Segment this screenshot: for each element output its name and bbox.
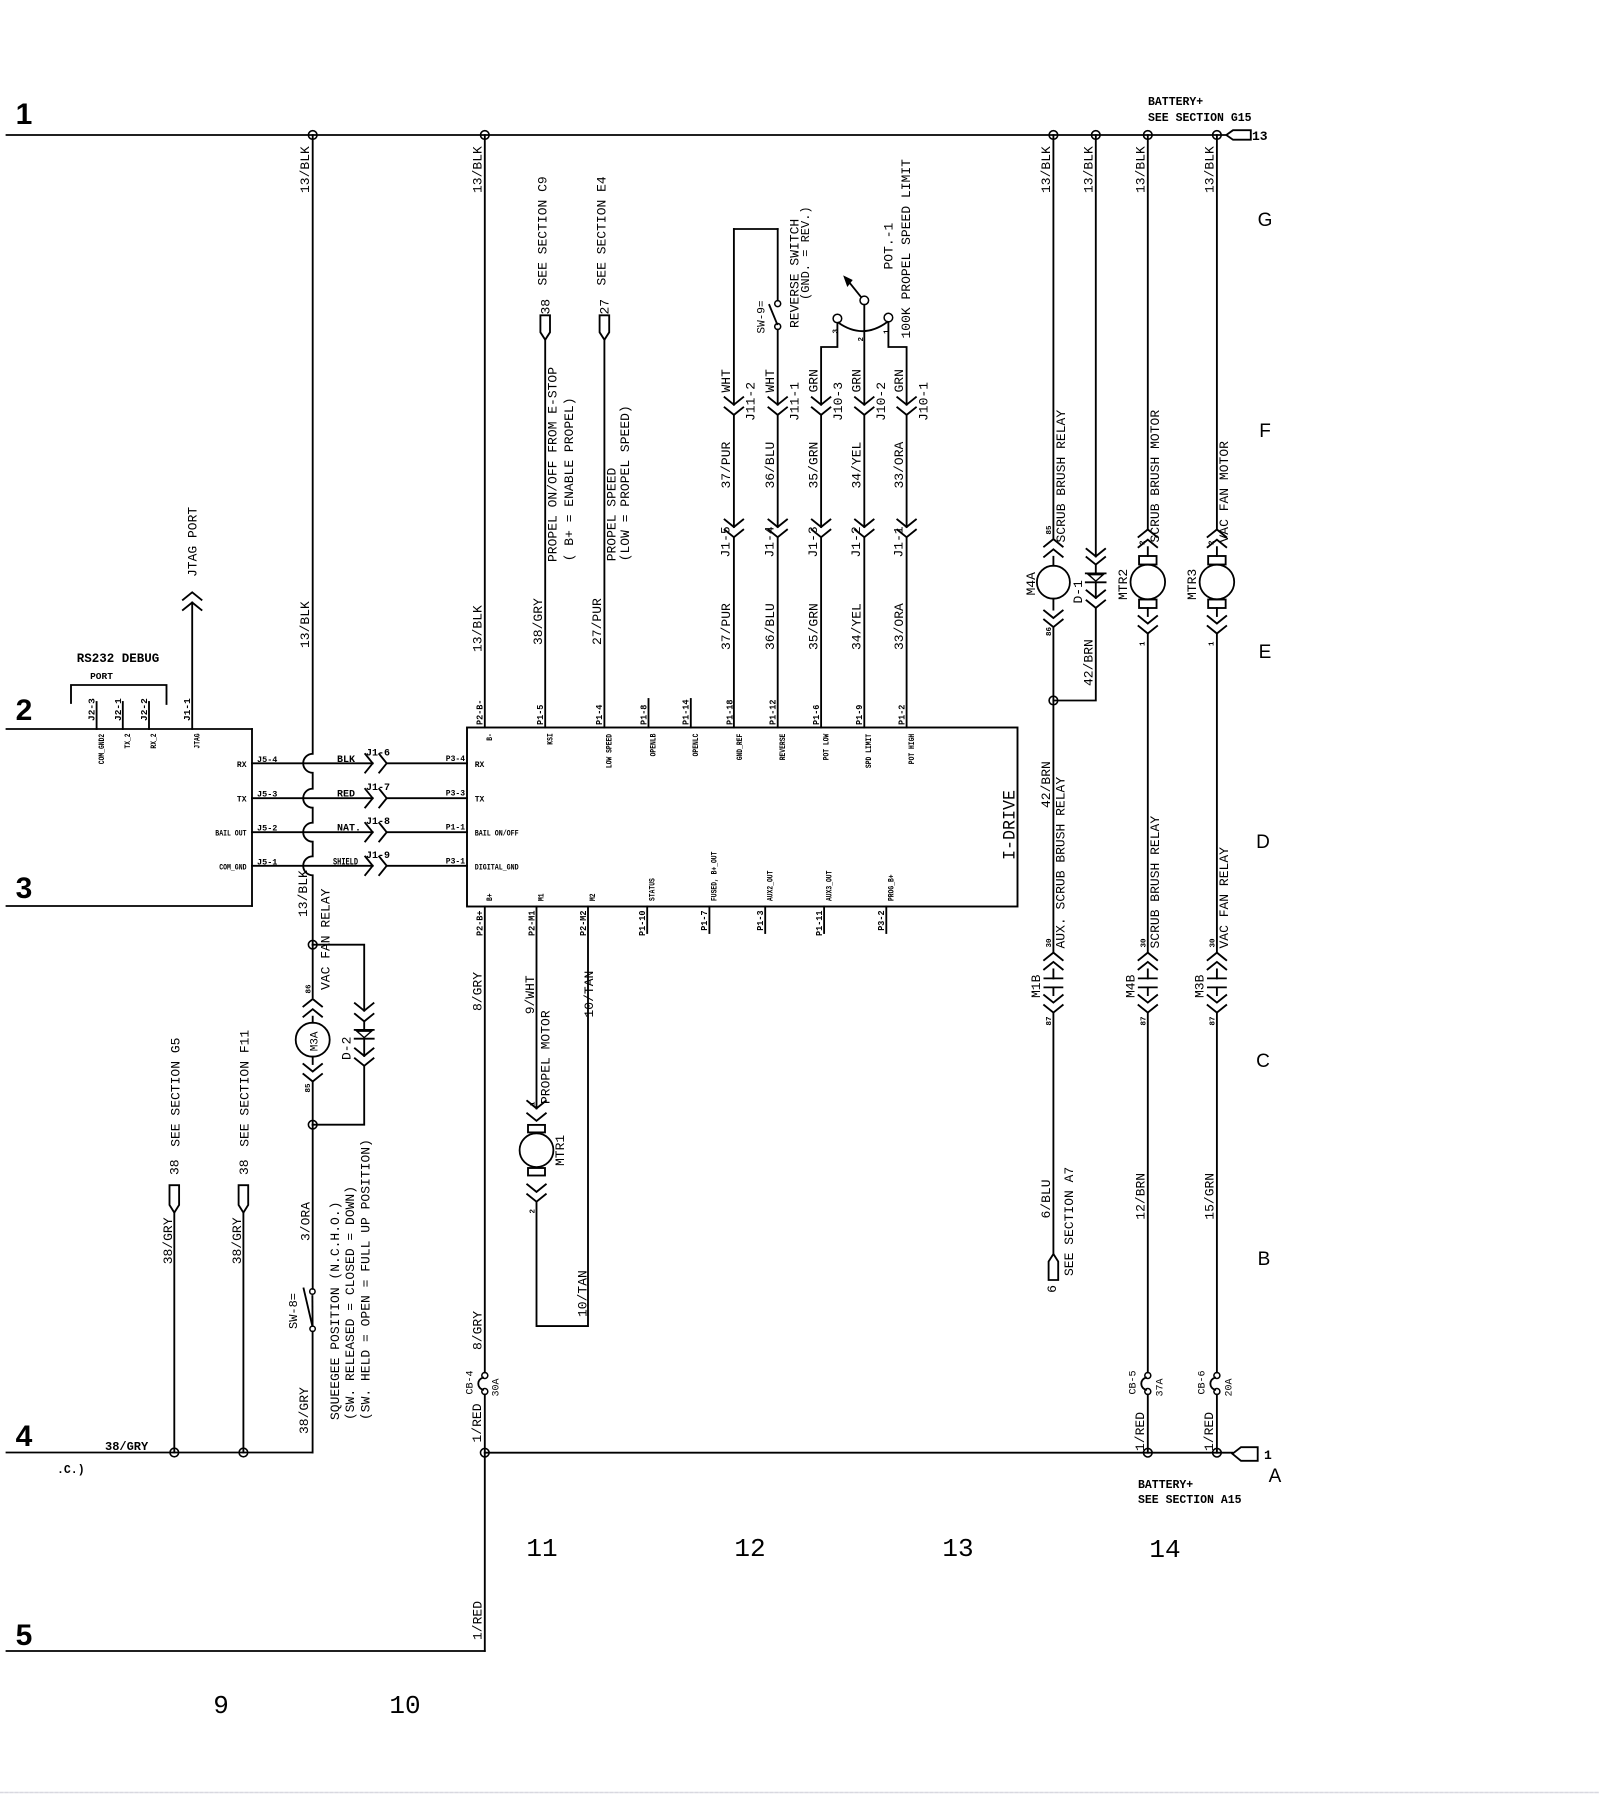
svg-text:J10-3: J10-3 (831, 382, 846, 421)
svg-text:M2: M2 (589, 893, 598, 901)
label PORT (90, 671, 113, 682)
svg-text:SEE SECTION G15: SEE SECTION G15 (1148, 112, 1252, 125)
wire 13/BLK (M4A branch) (1052, 135, 1054, 539)
column label 12 (734, 1534, 765, 1564)
label J1-2 (849, 526, 864, 557)
label PROPEL SPEED (605, 467, 620, 561)
motor MTR2 (1131, 547, 1166, 608)
svg-text:J11-1: J11-1 (788, 382, 803, 421)
svg-text:38/GRY: 38/GRY (105, 1440, 149, 1454)
label AUX. SCRUB BRUSH RELAY (1053, 777, 1068, 949)
column label 13 (942, 1534, 973, 1564)
label JTAG PORT (186, 507, 201, 577)
svg-text:P1-10: P1-10 (637, 910, 648, 936)
label SEE SECTION G5 (169, 1038, 184, 1147)
label B- (inside I-DRIVE top) (486, 733, 495, 741)
label 37/PUR (upper) (719, 441, 734, 488)
pin stub P1-10 (646, 907, 648, 934)
svg-text:J1-1: J1-1 (891, 526, 906, 557)
label M3A (inside coil) (309, 1031, 321, 1051)
svg-text:P1-6: P1-6 (811, 704, 822, 725)
pin J1-1 (JTAG) wire (191, 603, 193, 730)
svg-text:P2-B-: P2-B- (475, 700, 486, 726)
pin label P2-M2 (578, 910, 589, 936)
wire 3/ORA (junction to SW-8) (312, 1125, 314, 1289)
svg-text:AUX2_OUT: AUX2_OUT (766, 870, 775, 901)
label GRN (806, 369, 821, 392)
svg-text:OPENLC: OPENLC (692, 733, 701, 756)
junction M3A bottom / D-2 bottom (308, 1120, 317, 1129)
label J1-4 (763, 526, 778, 557)
pin stub P1-7 (708, 907, 710, 934)
svg-text:PROPEL ON/OFF FROM E-STOP: PROPEL ON/OFF FROM E-STOP (545, 367, 560, 562)
wire BLK from control board J5-4 to I-DRIVE P3-4 (252, 762, 467, 764)
svg-text:TX: TX (475, 796, 485, 805)
label 13/BLK (lower) (296, 870, 311, 917)
svg-text:CB-6: CB-6 (1198, 1370, 1209, 1394)
svg-text:POT HIGH: POT HIGH (908, 734, 917, 765)
svg-text:1: 1 (1264, 1448, 1272, 1463)
pin label J5-4 (257, 755, 277, 765)
svg-text:1/RED: 1/RED (470, 1403, 485, 1442)
pin 2 label (MTR1) (530, 1209, 538, 1214)
svg-text:42/BRN: 42/BRN (1081, 639, 1096, 686)
label 35/GRN (upper) (806, 442, 821, 489)
pin 2 label (MTR3) (1209, 540, 1217, 545)
label SEE SECTION F11 (238, 1030, 253, 1147)
svg-text:M1: M1 (538, 893, 547, 901)
svg-text:6/BLU: 6/BLU (1039, 1179, 1054, 1218)
svg-text:J2-1: J2-1 (113, 698, 124, 721)
switch SW-8 (squeegee position) (304, 1289, 316, 1332)
terminal 27 (see section E4) (600, 315, 610, 340)
label D-1 (1071, 580, 1086, 604)
svg-text:J1-6: J1-6 (366, 748, 390, 759)
svg-text:85: 85 (1046, 525, 1054, 535)
svg-text:P1-5: P1-5 (535, 704, 546, 725)
svg-text:1: 1 (530, 1101, 538, 1106)
svg-text:30A: 30A (492, 1378, 503, 1396)
label (LOW = PROPEL SPEED) (618, 405, 633, 561)
connector J10-2 chevrons (855, 397, 874, 415)
label BAIL ON/OFF (inside I-DRIVE) (475, 830, 519, 839)
pin label J5-3 (257, 790, 277, 800)
column label 11 (526, 1534, 557, 1564)
svg-text:CB-5: CB-5 (1129, 1370, 1140, 1394)
wire 38/GRY stub to SEE SECTION G5 (173, 1213, 175, 1453)
label 35/GRN (lower) (806, 603, 821, 650)
wire MTR1 bottom loop to 10/TAN (537, 907, 589, 1327)
svg-text:KSI: KSI (546, 733, 555, 745)
wire 13/BLK (D-1 branch) (1053, 135, 1095, 701)
svg-text:3: 3 (16, 872, 33, 905)
junction on BATTERY+ bus at x=1095.8 (1092, 131, 1101, 140)
label COM_GND (inside control board) (219, 863, 246, 872)
label 33/ORA (upper) (892, 441, 907, 488)
label 13/BLK (M4A branch) (1039, 146, 1054, 193)
svg-text:SCRUB BRUSH RELAY: SCRUB BRUSH RELAY (1054, 410, 1069, 543)
svg-text:I-DRIVE: I-DRIVE (1001, 790, 1021, 860)
svg-text:P1-1: P1-1 (446, 824, 465, 833)
svg-text:3: 3 (832, 329, 840, 334)
wire CB-6 to bottom bus (1216, 1395, 1218, 1453)
pin 85 label (M3A) (305, 1083, 313, 1093)
svg-text:J5-4: J5-4 (257, 755, 277, 765)
junction on bottom bus at x=1216.9 (1213, 1448, 1222, 1457)
wire MTR2 to M4B (1147, 634, 1149, 953)
svg-text:SEE SECTION E4: SEE SECTION E4 (595, 176, 610, 285)
row letter F (1259, 421, 1271, 442)
svg-text:J1-1: J1-1 (182, 698, 193, 721)
label 10/TAN (lower) (575, 1270, 590, 1317)
svg-text:M4A: M4A (1024, 572, 1039, 596)
junction M4A / D-1 (1049, 696, 1058, 705)
label SCRUB BRUSH MOTOR (1148, 410, 1163, 543)
label POT HIGH (inside I-DRIVE top) (908, 734, 917, 765)
label 1/RED (below CB-5) (1133, 1412, 1148, 1451)
label 13/BLK (mid, B- wire) (470, 605, 485, 652)
label 13/BLK (top, B- wire) (470, 146, 485, 193)
svg-text:P1-14: P1-14 (681, 699, 692, 725)
svg-text:8/GRY: 8/GRY (471, 1311, 486, 1350)
svg-text:COM_GND2: COM_GND2 (98, 734, 107, 765)
pin label P3-2 (876, 910, 887, 931)
svg-text:J1-5: J1-5 (719, 526, 734, 557)
svg-text:42/BRN: 42/BRN (1039, 761, 1054, 808)
svg-text:POT LOW: POT LOW (822, 734, 831, 761)
D-1 upper chevrons (1087, 549, 1106, 565)
row label 1 (16, 98, 33, 131)
svg-text:J10-2: J10-2 (874, 382, 889, 421)
column label 9 (213, 1691, 229, 1721)
pin stub P1-14 (690, 699, 692, 728)
svg-text:RX_2: RX_2 (150, 733, 159, 748)
svg-text:9: 9 (213, 1691, 229, 1721)
pin 87 label (M3B) (1210, 1016, 1218, 1025)
svg-text:LOW SPEED: LOW SPEED (606, 734, 615, 768)
pot pin 2 (858, 337, 866, 342)
D-2 upper chevrons (355, 1003, 374, 1021)
pin label P1-4 (594, 704, 605, 725)
label PROPEL ON/OFF FROM E-STOP (545, 367, 560, 562)
svg-text:(LOW = PROPEL SPEED): (LOW = PROPEL SPEED) (618, 405, 633, 561)
svg-text:M4B: M4B (1123, 974, 1138, 998)
label J1-6 (366, 748, 390, 759)
M3A coil bottom chevrons (303, 1057, 322, 1082)
svg-text:36/BLU: 36/BLU (763, 603, 778, 650)
svg-text:14: 14 (1149, 1535, 1180, 1565)
pin label P1-14 (681, 699, 692, 725)
pin J2-3 (COM_GND2) (87, 698, 107, 764)
svg-text:BATTERY+: BATTERY+ (1148, 96, 1203, 109)
relay contact M4B (1139, 953, 1158, 1013)
pin label P1-5 (535, 704, 546, 725)
svg-text:TX_2: TX_2 (124, 733, 133, 748)
label SPD LIMIT (inside I-DRIVE top) (865, 734, 874, 768)
row letter C (1256, 1051, 1270, 1072)
svg-text:COM_GND: COM_GND (219, 863, 246, 872)
svg-text:13/BLK: 13/BLK (298, 601, 313, 648)
switch SW-9 (reverse switch) (769, 301, 780, 330)
control board box (left) (7, 729, 253, 906)
label M1B (1029, 974, 1044, 998)
svg-text:35/GRN: 35/GRN (806, 603, 821, 650)
svg-text:13/BLK: 13/BLK (1133, 146, 1148, 193)
svg-text:GRN: GRN (892, 369, 907, 392)
svg-text:37/PUR: 37/PUR (719, 441, 734, 488)
label M4B (1123, 974, 1138, 998)
svg-text:NAT.: NAT. (337, 824, 361, 835)
svg-text:MTR3: MTR3 (1185, 569, 1200, 600)
label J1-5 (719, 526, 734, 557)
svg-text:SW-8=: SW-8= (287, 1293, 301, 1329)
svg-text:SEE SECTION A15: SEE SECTION A15 (1138, 1494, 1242, 1507)
svg-text:J2-3: J2-3 (87, 698, 98, 721)
svg-text:BATTERY+: BATTERY+ (1138, 1479, 1193, 1492)
svg-text:100K PROPEL SPEED LIMIT: 100K PROPEL SPEED LIMIT (899, 159, 914, 339)
row letter E (1259, 642, 1272, 663)
label M1 (inside I-DRIVE bottom) (538, 893, 547, 901)
svg-text:AUX3_OUT: AUX3_OUT (825, 870, 834, 901)
label 13/BLK (mid) (298, 601, 313, 648)
label 33/ORA (lower) (892, 603, 907, 650)
connector J1-5 chevrons (725, 520, 744, 538)
svg-text:P1-2: P1-2 (896, 704, 907, 725)
label 3/ORA (298, 1202, 313, 1241)
label KSI (inside I-DRIVE top) (546, 733, 555, 745)
junction 13/BLK / D-2 top (308, 940, 317, 949)
relay contact M3B pin 30 label (1210, 938, 1218, 948)
label 13/BLK (top) (298, 146, 313, 193)
I-DRIVE controller box (467, 728, 1018, 907)
svg-text:A: A (1269, 1466, 1282, 1487)
svg-text:15/GRN: 15/GRN (1202, 1173, 1217, 1220)
motor MTR3 (1200, 547, 1235, 608)
label WHT (763, 369, 778, 393)
wire MTR3 to M3B (1216, 634, 1218, 953)
label SEE SECTION A15 (1138, 1494, 1242, 1507)
svg-text:85: 85 (305, 1083, 313, 1093)
svg-text:D: D (1256, 832, 1270, 853)
label J10-1 (916, 382, 931, 421)
pin label P3-4 (446, 755, 465, 764)
svg-text:J1-3: J1-3 (806, 526, 821, 557)
terminal 1 (to section A15) (1232, 1447, 1272, 1463)
svg-text:13/BLK: 13/BLK (470, 146, 485, 193)
label 13/BLK (MTR3) (1202, 146, 1217, 193)
svg-text:13/BLK: 13/BLK (1039, 146, 1054, 193)
label 6/BLU (1039, 1179, 1054, 1218)
label GND_REF (inside I-DRIVE top) (736, 734, 745, 761)
wire NAT. from control board J5-2 to I-DRIVE P1-1 (252, 831, 467, 833)
label GRN (850, 369, 865, 392)
label SCRUB BRUSH RELAY (coil) (1054, 410, 1069, 543)
svg-text:1/RED: 1/RED (471, 1601, 486, 1640)
wire 13/BLK (left drop) with hops over RS232 wires (303, 135, 313, 945)
svg-text:SEE SECTION C9: SEE SECTION C9 (535, 176, 550, 285)
label MTR3 (1185, 569, 1200, 600)
label 34/YEL (lower) (850, 603, 865, 650)
svg-text:10: 10 (389, 1691, 420, 1721)
terminal 38 (SEE SECTION F11) (239, 1185, 249, 1212)
pin label P1-11 (814, 910, 825, 936)
svg-text:JTAG: JTAG (193, 733, 202, 748)
svg-text:SW-9=: SW-9= (757, 300, 769, 333)
svg-text:.C.): .C.) (57, 1464, 85, 1477)
wire 15/GRN (M3B to CB-6) (1216, 1013, 1218, 1373)
label 37/PUR (lower) (719, 603, 734, 650)
M4A coil top chevrons (1044, 539, 1063, 557)
svg-text:5: 5 (16, 1619, 33, 1652)
svg-text:13/BLK: 13/BLK (298, 146, 313, 193)
pin 2 label (MTR2) (1140, 540, 1148, 545)
wire: 1/RED to row 5 (7, 1453, 485, 1651)
junction 38/GRY stub 1 (170, 1448, 179, 1457)
JTAG PORT connector chevrons (183, 592, 202, 610)
label 42/BRN (1039, 761, 1054, 808)
label MTR2 (1116, 569, 1131, 600)
wire 6/BLU (M1B to section A7) (1052, 1013, 1054, 1254)
diode D-1 (1086, 573, 1106, 582)
svg-text:13/BLK: 13/BLK (470, 605, 485, 652)
wire: BATTERY+ bottom bus (net 1) right portion (485, 1452, 1233, 1454)
label SEE SECTION E4 (595, 176, 610, 285)
svg-text:38/GRY: 38/GRY (297, 1387, 312, 1434)
pin label P3-3 (446, 790, 465, 799)
label ( B+ = ENABLE PROPEL) (562, 397, 577, 561)
svg-text:P3-1: P3-1 (446, 857, 465, 866)
MTR3 top pin connector chevrons (1208, 530, 1227, 548)
pin 87 label (M1B) (1046, 1016, 1054, 1025)
svg-text:35/GRN: 35/GRN (806, 442, 821, 489)
label 36/BLU (upper) (763, 442, 778, 489)
connector J1-9 chevrons (365, 857, 387, 876)
svg-text:12/BRN: 12/BRN (1133, 1173, 1148, 1220)
svg-text:11: 11 (526, 1534, 557, 1564)
svg-text:RS232 DEBUG: RS232 DEBUG (77, 652, 160, 666)
D-1 lower chevrons (1087, 590, 1106, 608)
svg-text:12: 12 (734, 1534, 765, 1564)
wire 38/GRY stub to SEE SECTION F11 (242, 1213, 244, 1453)
label 38 (168, 1159, 183, 1175)
label 1/RED (below CB-6) (1202, 1412, 1217, 1451)
label 6 (1045, 1285, 1060, 1293)
junction on bottom bus at x=484.8 (481, 1448, 490, 1457)
connector J11-2 chevrons (725, 397, 744, 415)
wire 27/PUR to I-DRIVE P1-4 (603, 340, 605, 728)
label 8/GRY (above CB-4) (471, 1311, 486, 1350)
label 42/BRN (D-1 branch) (1081, 639, 1096, 686)
terminal 38 (SEE SECTION G5) (170, 1185, 180, 1212)
svg-text:P1-18: P1-18 (725, 699, 736, 725)
label VAC FAN MOTOR (1217, 441, 1232, 543)
diode D-2 (355, 1030, 374, 1039)
wire: BATTERY+ top bus (net 13) (7, 134, 1227, 136)
wire 35/GRN (pot 3 to J10-3 to J1-3 to P1-6) (821, 323, 837, 728)
svg-text:SEE SECTION G5: SEE SECTION G5 (169, 1038, 184, 1147)
label FUSED, B+_OUT (inside I-DRIVE bottom) (711, 851, 720, 901)
label 38/GRY (below SW-8) (297, 1387, 312, 1434)
label WHT (719, 369, 734, 393)
wire 13/BLK (MTR3 branch) (1216, 135, 1218, 530)
relay contact M1B (1044, 953, 1063, 1013)
svg-text:J5-2: J5-2 (257, 824, 277, 834)
label B+ (inside I-DRIVE bottom) (486, 893, 495, 901)
pin stub P1-11 (823, 907, 825, 934)
svg-text:OPENLB: OPENLB (650, 733, 659, 756)
svg-text:J1-9: J1-9 (366, 851, 390, 862)
svg-text:J1-4: J1-4 (763, 526, 778, 557)
label POT.-1 (882, 222, 897, 269)
label 1/RED (row5 wire) (471, 1601, 486, 1640)
svg-text:E: E (1259, 642, 1272, 663)
svg-text:34/YEL: 34/YEL (850, 603, 865, 650)
label 1/RED (below CB-4) (470, 1403, 485, 1442)
wire RED from control board J5-3 to I-DRIVE P3-3 (252, 797, 467, 799)
svg-text:MTR1: MTR1 (553, 1135, 568, 1166)
wire to M3A coil (312, 945, 314, 998)
svg-text:13: 13 (942, 1534, 973, 1564)
label D-2 (339, 1037, 354, 1060)
svg-text:(GND. = REV.): (GND. = REV.) (799, 206, 813, 300)
label 10/TAN (upper) (582, 971, 597, 1018)
svg-text:4: 4 (16, 1420, 33, 1453)
circuit breaker CB-5 37A (1129, 1370, 1167, 1396)
svg-text:P1-11: P1-11 (814, 910, 825, 936)
connector J1-7 chevrons (365, 789, 387, 808)
svg-text:9/WHT: 9/WHT (523, 975, 538, 1014)
pin label P1-18 (725, 699, 736, 725)
svg-text:SCRUB BRUSH MOTOR: SCRUB BRUSH MOTOR (1148, 410, 1163, 543)
pin 1 label (MTR2) (1140, 641, 1148, 646)
relay contact M4B pin 30 label (1141, 938, 1149, 948)
label (SW. RELEASED = CLOSED = DOWN) (343, 1186, 358, 1420)
svg-text:( B+ = ENABLE PROPEL): ( B+ = ENABLE PROPEL) (562, 397, 577, 561)
svg-text:M3A: M3A (309, 1031, 321, 1051)
svg-text:D-2: D-2 (339, 1037, 354, 1060)
wire 33/ORA (pot 1 to J10-1 to J1-1 to P1-2) (888, 322, 906, 728)
svg-text:86: 86 (305, 984, 313, 994)
pin stub P1-8 (648, 699, 650, 728)
svg-text:20A: 20A (1225, 1378, 1236, 1396)
label REVERSE (inside I-DRIVE top) (779, 734, 788, 761)
svg-text:33/ORA: 33/ORA (892, 441, 907, 488)
label J10-3 (831, 382, 846, 421)
label 13/BLK (MTR2) (1133, 146, 1148, 193)
label M4A (1024, 572, 1039, 596)
svg-text:PROG_B+: PROG_B+ (888, 874, 897, 901)
svg-text:P3-3: P3-3 (446, 790, 465, 799)
svg-text:3/ORA: 3/ORA (298, 1202, 313, 1241)
svg-text:34/YEL: 34/YEL (850, 442, 865, 489)
svg-text:MTR2: MTR2 (1116, 569, 1131, 600)
label GRN (892, 369, 907, 392)
row label 4 (16, 1420, 33, 1453)
svg-text:1: 1 (16, 98, 33, 131)
connector J1-2 chevrons (855, 520, 874, 538)
svg-text:FUSED, B+_OUT: FUSED, B+_OUT (711, 851, 720, 901)
pin label P1-8 (638, 704, 649, 725)
svg-text:M1B: M1B (1029, 974, 1044, 998)
svg-text:TX: TX (237, 796, 247, 805)
MTR1 pin 2 connector chevrons (527, 1184, 546, 1201)
wire 13/BLK to I-DRIVE P2-B- (484, 135, 486, 728)
label 38/GRY (161, 1217, 176, 1264)
svg-text:DIGITAL_GND: DIGITAL_GND (475, 863, 519, 872)
label .C.) cropped text (57, 1464, 85, 1477)
label 12/BRN (1133, 1173, 1148, 1220)
svg-text:38: 38 (168, 1159, 183, 1175)
